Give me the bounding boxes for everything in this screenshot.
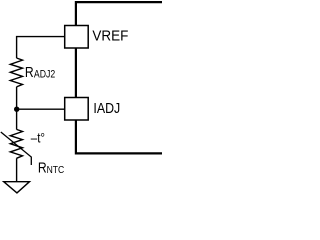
thermistor diagonal stroke <box>1 132 32 165</box>
ground symbol <box>4 182 30 193</box>
svg-text:ADJ2: ADJ2 <box>34 69 55 81</box>
svg-text:–t°: –t° <box>31 129 45 145</box>
wire VREF pin to left rail <box>17 37 65 58</box>
wire resistor to thermistor <box>16 87 18 129</box>
wire junction to IADJ pin <box>17 108 65 110</box>
wire thermistor to ground <box>16 158 18 181</box>
svg-text:NTC: NTC <box>47 165 65 176</box>
IC U1 body (partial, clipped at right edge) <box>76 2 162 153</box>
svg-text:R: R <box>25 65 34 81</box>
svg-text:VREF: VREF <box>92 29 128 45</box>
pin box IADJ <box>65 98 89 121</box>
node junction dot <box>14 107 19 112</box>
resistor RADJ2 <box>10 58 22 87</box>
thermistor RNTC zigzag <box>10 129 22 158</box>
svg-text:IADJ: IADJ <box>93 101 120 117</box>
svg-text:R: R <box>38 160 47 177</box>
pin box VREF <box>65 26 89 49</box>
